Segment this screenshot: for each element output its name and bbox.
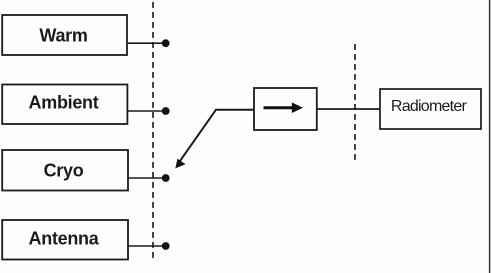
svg-text:Ambient: Ambient bbox=[29, 92, 99, 112]
svg-text:Cryo: Cryo bbox=[44, 160, 84, 180]
wire: Antenna to node bbox=[128, 245, 163, 247]
wire: Warm to node bbox=[127, 42, 163, 44]
node: Cryo contact dot bbox=[162, 174, 170, 182]
wire: Cryo to node bbox=[128, 177, 163, 179]
wire: isolator output to Radiometer bbox=[317, 108, 380, 110]
box: Antenna bbox=[2, 220, 128, 260]
box: Radiometer bbox=[380, 89, 481, 129]
svg-text:Antenna: Antenna bbox=[29, 229, 100, 249]
wire: switch arm (isolator input to selected Cryo contact, with arrowhead) bbox=[175, 110, 254, 169]
node: Warm contact dot bbox=[162, 39, 170, 47]
wire: Ambient to node bbox=[127, 110, 163, 112]
reference plane: left dashed line (switch input plane) bbox=[152, 2, 154, 259]
node: Ambient contact dot bbox=[162, 107, 170, 115]
svg-text:Radiometer: Radiometer bbox=[391, 98, 468, 115]
component: isolator U1 (box with arrow) bbox=[254, 88, 317, 130]
svg-text:Warm: Warm bbox=[39, 25, 87, 45]
border: figure right edge bbox=[489, 0, 491, 273]
box: Warm load bbox=[2, 15, 127, 55]
node: Antenna contact dot bbox=[162, 242, 170, 250]
box: Cryo load bbox=[2, 150, 128, 191]
reference plane: right dashed line (radiometer input plane) bbox=[354, 44, 356, 162]
box: Ambient load bbox=[2, 85, 127, 125]
